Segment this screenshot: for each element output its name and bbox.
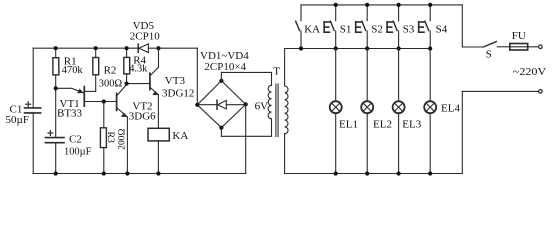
capacitor C2 [45, 138, 64, 143]
wire node to VT3 base [127, 83, 150, 85]
terminal upper 220V [539, 45, 543, 49]
svg-text:S: S [486, 49, 492, 61]
svg-text:~220V: ~220V [513, 66, 546, 78]
node rail C EL4 [428, 171, 432, 175]
node VT1 emitter junction [54, 86, 58, 90]
wire VT3 emitter to relay KA [157, 95, 159, 129]
node rail C EL3 [397, 171, 401, 175]
switch S2 branch [362, 5, 367, 49]
node rail A S3 [397, 3, 401, 7]
svg-text:BT33: BT33 [57, 107, 83, 119]
pull-cord symbol S1 [324, 22, 329, 32]
wire left border lower (C1 to bottom rail) [32, 113, 34, 173]
resistor R3 [103, 102, 105, 128]
transistor VT1 (UJT BT33) [56, 87, 117, 107]
wire bridge top corner to transformer secondary top [220, 72, 222, 80]
svg-text:3DG12: 3DG12 [162, 88, 194, 100]
svg-text:200Ω: 200Ω [117, 129, 127, 150]
svg-text:2CP10×4: 2CP10×4 [204, 61, 246, 73]
switch S4 branch [425, 5, 430, 49]
svg-text:C2: C2 [69, 134, 82, 146]
wire neutral return [461, 91, 463, 173]
lamp EL1 [330, 49, 342, 174]
wire bottom rail left circuit [33, 173, 246, 175]
resistor R2 [95, 48, 97, 57]
node rail B S4 [428, 46, 432, 50]
node R2 top [94, 46, 98, 50]
svg-text:EL1: EL1 [339, 118, 358, 130]
diode VD5 [138, 44, 148, 53]
node VD5 cathode-side rail [156, 46, 160, 50]
node rail B KA [299, 46, 303, 50]
svg-text:6V: 6V [255, 100, 269, 112]
svg-text:R3: R3 [105, 131, 116, 143]
svg-text:EL4: EL4 [441, 103, 460, 115]
transformer T secondary winding [268, 85, 271, 118]
node rail B S3 [397, 46, 401, 50]
terminal lower 220V [539, 90, 543, 94]
svg-text:S2: S2 [371, 23, 383, 35]
capacitor C1 [25, 108, 41, 113]
svg-text:FU: FU [512, 30, 526, 42]
switch S [462, 46, 483, 48]
lamp EL4 [424, 49, 436, 174]
pull-cord symbol S2 [356, 22, 361, 32]
node R1 top [54, 46, 58, 50]
node bridge right corner [244, 102, 248, 106]
wire right drop to switch S [461, 5, 463, 47]
svg-text:S4: S4 [436, 23, 448, 35]
node rail A S2 [365, 3, 369, 7]
svg-text:KA: KA [172, 130, 188, 142]
switch S1 branch [330, 5, 335, 49]
svg-text:R2: R2 [104, 65, 117, 77]
svg-text:S3: S3 [403, 23, 415, 35]
wire VT2 emitter to bottom rail [126, 117, 128, 174]
switch KA contact branch [296, 5, 301, 49]
wire R1 bottom to C2 [55, 88, 57, 137]
lamp EL3 [393, 49, 405, 174]
svg-text:300Ω: 300Ω [99, 79, 123, 90]
node bridge left corner [195, 103, 199, 107]
node rail A S1 [334, 3, 338, 7]
node VT2 emitter bottom rail [125, 171, 129, 175]
node rail B S2 [365, 46, 369, 50]
svg-text:VT3: VT3 [165, 75, 186, 87]
node rail C EL1 [334, 171, 338, 175]
transistor VT3 [150, 48, 159, 95]
svg-text:T: T [273, 65, 280, 77]
fuse FU [510, 46, 539, 48]
bridge rectifier VD1-VD4 diamond [197, 81, 245, 128]
node bridge top corner [219, 79, 223, 83]
transformer core [275, 84, 277, 137]
wire top rail left circuit [33, 47, 197, 49]
node C2 bottom rail [54, 171, 58, 175]
node KA bottom rail [156, 171, 160, 175]
node rail B S1 [334, 46, 338, 50]
lamp EL2 [361, 49, 373, 174]
svg-text:S1: S1 [340, 23, 352, 35]
svg-text:50µF: 50µF [6, 114, 29, 126]
wire bridge bottom corner to transformer secondary bottom [220, 128, 222, 137]
transistor VT2 [117, 84, 128, 117]
wire primary bottom to right bottom rail [284, 134, 286, 174]
node rail A S4 [428, 3, 432, 7]
wire top rail right section [301, 4, 462, 6]
wire primary top to switched rail [284, 49, 286, 87]
svg-text:470k: 470k [62, 65, 84, 76]
transformer T primary winding [285, 86, 288, 134]
svg-text:4.3k: 4.3k [129, 64, 148, 75]
resistor R1 [55, 48, 57, 58]
switch S3 branch [393, 5, 398, 49]
node R3 bottom rail [102, 171, 106, 175]
svg-text:EL2: EL2 [373, 118, 392, 130]
resistor R4 [126, 48, 128, 57]
node VD5 anode / R4 top [125, 46, 129, 50]
svg-text:100µF: 100µF [64, 147, 92, 158]
wire bridge right corner down to bottom rail [245, 104, 247, 173]
wire bottom rail right section [285, 173, 463, 175]
svg-text:EL3: EL3 [402, 118, 421, 130]
node rail C EL2 [365, 171, 369, 175]
pull-cord symbol S4 [419, 22, 424, 32]
relay coil KA [148, 128, 169, 141]
wire top rail to bridge left corner [196, 48, 198, 105]
svg-text:2CP10: 2CP10 [130, 30, 160, 42]
svg-text:KA: KA [304, 23, 320, 35]
wire switched rail (rail B) [285, 48, 431, 50]
node bridge bottom corner [219, 126, 223, 130]
node B1 / VT2 base junction [102, 99, 106, 103]
wire left border upper (to C1) [32, 48, 34, 107]
node R4/VT2 collector/VT3 base [125, 82, 129, 86]
pull-cord symbol S3 [387, 22, 392, 32]
svg-text:3DG6: 3DG6 [129, 111, 156, 123]
